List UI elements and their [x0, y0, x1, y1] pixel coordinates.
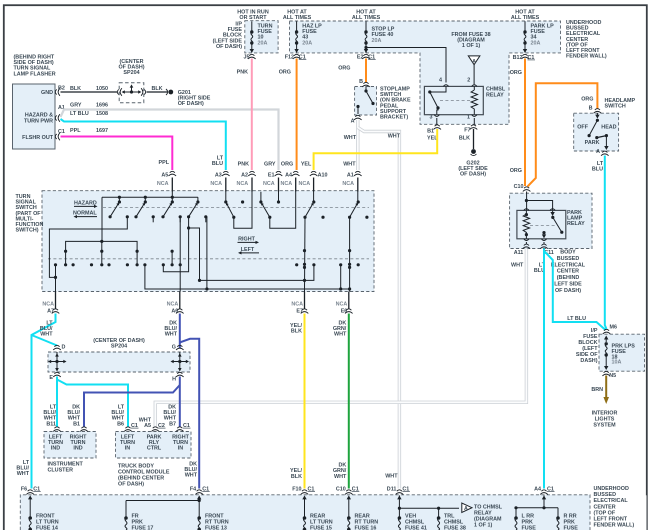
svg-text:B1: B1 — [73, 421, 80, 427]
svg-text:WHT: WHT — [385, 474, 398, 480]
wire L2 normal contact to A7 leg — [49, 217, 127, 278]
svg-text:BLK: BLK — [459, 136, 470, 142]
wire ORG haz fuse F12 to A4 — [296, 59, 298, 171]
svg-text:A10: A10 — [318, 172, 328, 178]
fuse R RR PRK FUSE — [557, 508, 559, 517]
wire to CHMSL relay pin 4 — [366, 48, 446, 83]
underhood bussed electrical center (bottom) — [20, 495, 590, 530]
connector E2 C1 — [362, 54, 370, 59]
wire BLK splice to ground G201 — [147, 91, 168, 93]
svg-text:R RR: R RR — [564, 514, 577, 520]
svg-text:CHMSL: CHMSL — [444, 520, 464, 526]
turn signal switch (part of multi-function switch) box — [42, 191, 374, 292]
I/P fuse block box with TURN FUSE 10 — [245, 21, 278, 53]
svg-text:4: 4 — [439, 78, 442, 84]
wire C10 to relay pins — [526, 192, 528, 211]
svg-text:B7: B7 — [169, 421, 176, 427]
svg-text:ELECTRICAL: ELECTRICAL — [594, 498, 629, 504]
svg-text:1697: 1697 — [96, 128, 108, 134]
park relay coil pin (top left) — [524, 209, 529, 211]
wire LT BLU C11 to A4 and M6 — [543, 249, 545, 489]
svg-text:BLU: BLU — [592, 167, 603, 173]
fuse PARK LP FUSE 34 20A — [524, 21, 526, 31]
svg-text:OFF: OFF — [577, 125, 588, 131]
svg-text:BODY: BODY — [560, 250, 576, 256]
body bussed electrical center box with park lamp relay — [510, 193, 592, 248]
svg-text:A: A — [596, 149, 600, 155]
svg-text:E: E — [49, 375, 53, 381]
svg-text:G: G — [172, 345, 176, 351]
svg-text:FUSE 38: FUSE 38 — [444, 526, 466, 530]
svg-text:BUSSED: BUSSED — [557, 256, 580, 262]
splice input D — [53, 345, 61, 350]
wire E1 entry into switch — [278, 178, 280, 192]
svg-text:OR START: OR START — [239, 15, 267, 21]
svg-text:E7: E7 — [296, 308, 303, 314]
svg-text:NCA: NCA — [42, 302, 54, 308]
svg-text:ALL TIMES: ALL TIMES — [283, 15, 312, 21]
svg-text:NCA: NCA — [299, 181, 311, 187]
wire BRN to interior lights system — [605, 376, 607, 399]
svg-text:BLK: BLK — [291, 329, 302, 335]
svg-text:RIGHT: RIGHT — [238, 236, 255, 242]
stoplamp switch contact arm — [365, 87, 367, 90]
park relay switch pin (top right) — [550, 209, 555, 211]
fuse L RR PRK FUSE — [515, 508, 517, 517]
wire YEL/BLK E7 to F10 — [304, 314, 306, 489]
connector B7 C1 — [176, 427, 184, 432]
pin 3 of CHMSL relay — [434, 115, 439, 117]
connector F10 C1 (bottom box) — [301, 490, 309, 495]
wire LT BLU headlamp A to fuse M6 — [605, 156, 607, 330]
svg-text:WHT: WHT — [388, 134, 401, 140]
pin C1 of flasher — [55, 133, 60, 141]
svg-text:N5: N5 — [609, 373, 616, 379]
wire DK BLU/WHT H to B7 and B1 — [179, 377, 181, 427]
wire terminal to E7 leg — [305, 265, 314, 281]
wire L3 lower bank feed — [66, 241, 138, 251]
connector B1 — [433, 125, 441, 130]
wire DK BLU/WHT A6 to F4 and splice G — [179, 314, 181, 349]
node below stop fuse — [365, 44, 367, 53]
svg-text:OF DASH): OF DASH) — [118, 482, 144, 488]
pin B2 of flasher — [55, 88, 60, 96]
wire GRY 1696 flasher A1 to E1 — [61, 110, 279, 171]
connector A5 NCA — [169, 171, 177, 176]
svg-text:LT TURN: LT TURN — [310, 520, 333, 526]
pin A1 of flasher — [55, 114, 60, 122]
connector A5 C2 — [152, 427, 160, 432]
stoplamp switch (on brake pedal support bracket) — [355, 87, 411, 121]
svg-text:WHT: WHT — [17, 471, 30, 477]
svg-text:LT TURN: LT TURN — [36, 520, 59, 526]
svg-text:B11: B11 — [46, 421, 56, 427]
connector A4 C1 (bottom box) — [540, 490, 548, 495]
CHMSL relay coil — [471, 86, 477, 114]
svg-text:B1: B1 — [427, 129, 434, 135]
svg-text:B2: B2 — [58, 86, 65, 92]
connector F6 C1 (bottom box) — [26, 490, 34, 495]
CHMSL relay switch — [430, 86, 446, 92]
connector A6 NCA — [179, 292, 181, 310]
wire A2 elbow to contact 5 — [234, 192, 252, 229]
svg-text:ALL TIMES: ALL TIMES — [511, 15, 540, 21]
wire DK GRN/WHT E6 to C10 — [348, 314, 350, 489]
splice SP204 (center of dash) — [117, 59, 145, 103]
svg-text:FR: FR — [132, 514, 139, 520]
svg-text:D11: D11 — [387, 486, 397, 492]
connector A of headlamp switch — [601, 151, 609, 156]
svg-text:3: 3 — [430, 115, 433, 121]
svg-text:WHT: WHT — [343, 162, 356, 168]
svg-text:FLSHR OUT: FLSHR OUT — [22, 135, 54, 141]
connector B of headlamp switch — [594, 109, 602, 114]
svg-text:FUSE 13: FUSE 13 — [205, 526, 227, 530]
svg-text:F4: F4 — [190, 486, 196, 492]
svg-text:CHMSL: CHMSL — [405, 520, 425, 526]
svg-text:OF DASH): OF DASH) — [178, 101, 204, 107]
headlamp switch park contact — [595, 136, 598, 139]
svg-text:A7: A7 — [47, 308, 54, 314]
wire terminal drop to bottom bus — [340, 265, 342, 289]
fuse HAZ LP FUSE 43 20A — [296, 21, 298, 31]
svg-text:RELAY: RELAY — [486, 93, 504, 99]
connector E1 NCA — [275, 171, 283, 176]
fuse STOP LP FUSE 40 20A — [365, 21, 367, 31]
svg-text:F12: F12 — [285, 55, 294, 61]
svg-text:A4: A4 — [534, 486, 541, 492]
switch contact 8 (A1) — [357, 192, 359, 203]
svg-text:FUSE 17: FUSE 17 — [132, 526, 154, 530]
svg-text:C10: C10 — [514, 184, 524, 190]
park relay coil — [523, 210, 529, 238]
svg-text:FENDER WALL): FENDER WALL) — [594, 523, 635, 529]
svg-text:B: B — [359, 79, 363, 85]
pin 4 of CHMSL relay — [443, 85, 448, 87]
svg-text:(TOP OF: (TOP OF — [594, 510, 616, 516]
wire WHT A11 to BCM A5 (park rly ctrl) — [155, 249, 526, 427]
svg-text:1696: 1696 — [96, 103, 108, 109]
connector A2 NCA — [248, 171, 256, 176]
svg-text:C10: C10 — [336, 486, 346, 492]
svg-text:REAR: REAR — [310, 514, 325, 520]
svg-text:GRY: GRY — [70, 103, 82, 109]
svg-text:NCA: NCA — [237, 181, 249, 187]
wire LT BLU 1508 flasher A1 to A3 — [61, 119, 226, 170]
svg-text:RT TURN: RT TURN — [205, 520, 229, 526]
svg-text:SWITCH: SWITCH — [605, 104, 626, 110]
svg-text:ORG: ORG — [279, 70, 291, 76]
headlamp switch — [574, 98, 636, 151]
svg-text:TRL: TRL — [444, 514, 455, 520]
svg-text:20A: 20A — [258, 40, 268, 46]
svg-text:IND: IND — [73, 445, 82, 451]
park lamp relay inner box — [517, 210, 566, 238]
wire LT BLU/WHT A7 to F6 and splice D — [32, 314, 56, 489]
svg-text:A4: A4 — [285, 172, 292, 178]
svg-text:ELECTRICAL: ELECTRICAL — [551, 262, 586, 268]
connector A3 NCA — [222, 171, 230, 176]
wire BLK F7 to ground G202 — [473, 129, 475, 149]
svg-text:FRONT: FRONT — [205, 514, 224, 520]
switch contact 6 (E1/A4) — [278, 192, 280, 203]
wire ORG branch to headlamp switch B and relay C10 — [528, 83, 598, 186]
connector B1 — [80, 427, 88, 432]
splice output E — [53, 372, 61, 377]
svg-text:FUSE 14: FUSE 14 — [36, 526, 58, 530]
fuse PRK LPS FUSE 18 10A — [605, 342, 608, 345]
pin A11 of park relay — [524, 239, 529, 241]
switch contact 5 (A3/A2) — [225, 192, 227, 203]
ground G202 (left side of dash) — [471, 149, 476, 154]
wire contact 3 fixed to A6 leg — [179, 217, 181, 292]
pin B of stoplamp switch — [362, 82, 370, 87]
svg-text:SP204: SP204 — [111, 344, 127, 350]
svg-text:PNK: PNK — [237, 70, 248, 76]
svg-text:WHT: WHT — [334, 332, 347, 338]
svg-text:ALL TIMES: ALL TIMES — [352, 15, 381, 21]
svg-text:A: A — [472, 59, 476, 65]
svg-text:A5: A5 — [161, 172, 168, 178]
ground G201 (right side of dash) — [166, 89, 168, 95]
connector A4 NCA — [292, 171, 300, 176]
wire PPL 1697 flasher C1 to A5 — [61, 137, 173, 171]
svg-text:J5: J5 — [244, 55, 250, 61]
fuse REAR RT TURN FUSE 16 — [348, 499, 350, 517]
svg-text:TURN PWR: TURN PWR — [24, 119, 53, 125]
svg-text:1508: 1508 — [96, 111, 108, 117]
svg-text:OF DASH): OF DASH) — [460, 172, 486, 178]
CHMSL bus from D11 — [398, 495, 400, 516]
svg-text:LEFT SIDE: LEFT SIDE — [554, 282, 582, 288]
connector E6 NCA — [348, 292, 350, 310]
connector M6 — [603, 329, 611, 334]
connector E7 NCA — [304, 292, 306, 310]
svg-text:OF DASH): OF DASH) — [216, 44, 242, 50]
svg-text:BLK: BLK — [291, 474, 302, 480]
svg-text:LAMP FLASHER: LAMP FLASHER — [14, 71, 56, 77]
svg-text:OF DASH): OF DASH) — [555, 288, 581, 294]
internal dashed position lines — [48, 208, 369, 259]
svg-text:FUSE 15: FUSE 15 — [310, 526, 332, 530]
connector B11 — [53, 427, 61, 432]
I/P fuse block (left side of dash) PRK LPS fuse — [599, 334, 645, 371]
wire ORG stop fuse E2 to stoplamp switch B — [365, 59, 367, 83]
wire A5 entry into switch — [171, 178, 173, 192]
svg-text:NCA: NCA — [342, 181, 354, 187]
svg-text:A: A — [351, 119, 355, 125]
svg-text:WHT: WHT — [344, 135, 357, 141]
wire WHT stoplamp A to A1 and D11 — [356, 120, 359, 170]
svg-text:LEFT: LEFT — [241, 247, 255, 253]
svg-text:2: 2 — [467, 78, 470, 84]
label UNDERHOOD BUSSED ELECTRICAL CENTER (bottom right) — [591, 486, 647, 530]
connector F4 C1 (bottom box) — [195, 490, 203, 495]
connector A10 NCA — [310, 171, 318, 176]
svg-text:FUSE: FUSE — [522, 526, 537, 530]
svg-text:B6: B6 — [117, 421, 124, 427]
svg-text:WHT: WHT — [334, 474, 347, 480]
wire contact 4 arm branches — [163, 217, 188, 272]
svg-text:ORG: ORG — [338, 66, 350, 72]
park relay linkage dashes — [530, 224, 556, 226]
svg-text:PPL: PPL — [70, 128, 81, 134]
svg-text:C1: C1 — [58, 129, 65, 135]
connector F12 C1 — [293, 54, 301, 59]
pin 2 of CHMSL relay — [472, 85, 477, 87]
svg-text:1: 1 — [467, 115, 470, 121]
svg-text:NCA: NCA — [336, 302, 348, 308]
svg-text:PRK: PRK — [564, 520, 575, 526]
svg-text:(BEHIND: (BEHIND — [557, 275, 580, 281]
wire bottom bus — [145, 265, 350, 289]
connector C10 C1 (bottom box) — [345, 490, 353, 495]
svg-text:HAZARD: HAZARD — [74, 200, 97, 206]
svg-text:FRONT: FRONT — [36, 514, 55, 520]
svg-text:LT BLU: LT BLU — [567, 316, 586, 322]
svg-text:20A: 20A — [531, 40, 541, 46]
wire A7 leg — [55, 265, 57, 292]
svg-text:IND: IND — [51, 445, 60, 451]
switch contact 2 (hazard bank) — [144, 200, 147, 203]
wire PNK turn fuse J5 to A2 — [251, 59, 253, 171]
headlamp switch arm — [596, 119, 599, 122]
svg-text:YEL: YEL — [301, 162, 312, 168]
svg-text:SWITCH): SWITCH) — [16, 228, 39, 234]
wire LT BLU/WHT E to B11 and B6 — [56, 377, 58, 427]
switch contact 4 (hazard bank) — [196, 200, 199, 203]
svg-text:CTRL: CTRL — [147, 445, 162, 451]
wire E6 leg — [349, 217, 351, 291]
svg-text:RT TURN: RT TURN — [355, 520, 379, 526]
wire contact 4 fixed long drop — [206, 217, 208, 289]
svg-text:B: B — [589, 106, 593, 112]
connector B12 C1 — [521, 54, 529, 59]
park relay switch output contact — [542, 231, 545, 234]
svg-text:ORG: ORG — [281, 162, 293, 168]
svg-text:B12: B12 — [513, 55, 523, 61]
svg-text:WHT: WHT — [40, 332, 53, 338]
svg-text:A6: A6 — [171, 308, 178, 314]
svg-text:HEAD: HEAD — [601, 125, 616, 131]
svg-text:A3: A3 — [215, 172, 222, 178]
svg-text:GND: GND — [41, 90, 53, 96]
svg-text:FENDER WALL): FENDER WALL) — [566, 54, 607, 60]
pin 1 of CHMSL relay — [472, 115, 477, 117]
stoplamp switch fixed contact to pin A — [356, 105, 359, 108]
svg-text:PRK: PRK — [522, 520, 533, 526]
svg-text:F6: F6 — [21, 486, 27, 492]
svg-text:ORG: ORG — [581, 97, 593, 103]
fuse TURN FUSE 10 20A — [251, 21, 253, 31]
wire A2 entry into switch — [251, 178, 253, 192]
svg-text:WHT: WHT — [185, 473, 198, 479]
svg-text:BLK: BLK — [70, 86, 81, 92]
wire YEL CHMSL pin3 to A10 — [314, 129, 438, 170]
svg-text:A5: A5 — [144, 423, 151, 429]
svg-text:SP204: SP204 — [123, 70, 139, 76]
svg-text:DASH): DASH) — [580, 358, 597, 364]
fuse VEH CHMSL FUSE 41 — [398, 516, 402, 520]
svg-text:PARK: PARK — [585, 140, 600, 146]
connector A11 — [523, 244, 531, 249]
connector A1 NCA — [354, 171, 362, 176]
wire A3 entry into switch — [225, 178, 227, 192]
wire A10 entry into switch — [313, 178, 315, 192]
svg-text:PNK: PNK — [238, 162, 249, 168]
wire ORG park fuse B12 to park lamp relay C10 — [524, 59, 526, 187]
CHMSL relay — [424, 86, 505, 114]
svg-text:10A: 10A — [612, 360, 622, 366]
svg-text:L RR: L RR — [522, 514, 535, 520]
svg-text:VEH: VEH — [405, 514, 416, 520]
wire A4 entry into switch — [295, 178, 297, 192]
svg-text:H: H — [172, 377, 176, 383]
switch contact 5 upper fixed dot — [241, 200, 244, 203]
svg-text:IN: IN — [125, 445, 130, 451]
fuse FRONT RT TURN FUSE 13 — [198, 499, 200, 517]
switch contact 3 (hazard bank) — [171, 200, 174, 203]
wire E7 leg — [304, 217, 307, 291]
triangle A (from fuse 38) — [468, 56, 480, 65]
switch contact 1 (hazard bank) — [118, 200, 121, 203]
svg-text:WHT: WHT — [511, 263, 524, 269]
svg-text:E6: E6 — [341, 308, 348, 314]
fuse REAR LT TURN FUSE 15 — [304, 499, 306, 517]
wire BLK 1050 flasher GND to splice SP204 — [61, 91, 118, 93]
switch contact 7 (A10) — [313, 192, 315, 203]
connector C10 of park lamp relay — [523, 187, 531, 192]
svg-text:F10: F10 — [292, 486, 301, 492]
splice input G — [176, 345, 184, 350]
svg-text:1 OF 1): 1 OF 1) — [474, 523, 492, 529]
connector D11 C1 (bottom box) — [396, 490, 404, 495]
svg-text:20A: 20A — [372, 38, 382, 44]
connector B6 C1 — [124, 427, 132, 432]
svg-text:D: D — [62, 345, 66, 351]
park bus from A4 — [543, 495, 545, 507]
fuse FRONT LT TURN FUSE 14 — [29, 499, 31, 517]
svg-text:FUSE 16: FUSE 16 — [355, 526, 377, 530]
svg-text:FUSE 41: FUSE 41 — [405, 526, 427, 530]
fuse TRL CHMSL FUSE 38 — [438, 508, 440, 516]
svg-text:SYSTEM: SYSTEM — [593, 423, 616, 429]
svg-text:IN: IN — [178, 445, 183, 451]
park relay switch arm — [552, 210, 554, 214]
svg-text:E1: E1 — [268, 172, 275, 178]
svg-text:LT BLU: LT BLU — [70, 111, 89, 117]
svg-text:BLU: BLU — [212, 161, 223, 167]
svg-text:GRY: GRY — [264, 162, 276, 168]
lower bank terminals — [54, 263, 57, 266]
svg-text:NCA: NCA — [167, 302, 179, 308]
svg-text:UNDERHOOD: UNDERHOOD — [594, 486, 629, 492]
svg-text:1 OF 1): 1 OF 1) — [462, 43, 480, 49]
svg-text:A1: A1 — [347, 172, 354, 178]
svg-text:LEFT FRONT: LEFT FRONT — [594, 517, 628, 523]
svg-text:BRACKET): BRACKET) — [380, 115, 408, 121]
svg-text:CLUSTER: CLUSTER — [48, 468, 74, 474]
svg-text:WHT: WHT — [165, 332, 178, 338]
connector J5 — [248, 54, 256, 59]
svg-text:BUSSED: BUSSED — [594, 492, 617, 498]
instrument cluster — [44, 432, 96, 459]
pin A connector of stoplamp switch — [354, 115, 362, 120]
connector C11 — [540, 244, 548, 249]
hazard feed bus inside switch — [102, 196, 198, 198]
underhood bussed electrical center (top) box — [290, 21, 561, 124]
svg-text:A2: A2 — [241, 172, 248, 178]
